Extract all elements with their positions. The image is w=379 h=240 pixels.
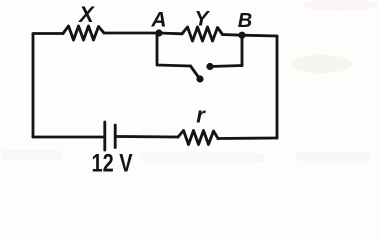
wire node B branch down bbox=[241, 35, 244, 65]
wire X to node A bbox=[104, 32, 159, 35]
resistor X bbox=[63, 26, 104, 40]
switch contact dot bbox=[206, 63, 213, 70]
node A junction dot bbox=[155, 29, 162, 36]
wire Y to node B bbox=[223, 33, 243, 37]
svg-text:Y: Y bbox=[194, 8, 210, 31]
battery short plate bbox=[114, 125, 117, 148]
switch blade end dot bbox=[196, 75, 203, 82]
wire node A to Y bbox=[159, 32, 182, 36]
battery long plate bbox=[103, 122, 106, 150]
svg-text:X: X bbox=[77, 2, 95, 27]
wire battery to resistor r bbox=[116, 135, 178, 138]
wire resistor r to bottom-right corner bbox=[218, 137, 277, 140]
resistor r bbox=[178, 131, 218, 145]
svg-text:A: A bbox=[150, 9, 166, 32]
wire right side bbox=[276, 36, 279, 138]
wire left side bbox=[32, 34, 35, 137]
wire node A branch down to switch bbox=[157, 33, 191, 66]
wire switch contact to node B branch bbox=[210, 66, 242, 67]
wire bottom left to battery bbox=[33, 136, 104, 139]
svg-text:12 V: 12 V bbox=[92, 150, 133, 178]
node B junction dot bbox=[238, 32, 245, 39]
wire top-right corner to node B bbox=[242, 34, 277, 38]
svg-text:r: r bbox=[196, 103, 206, 128]
switch blade (open) bbox=[191, 66, 200, 79]
resistor Y bbox=[182, 27, 223, 41]
wire node A to top-left corner (with X ends) bbox=[33, 32, 63, 35]
svg-text:B: B bbox=[238, 10, 252, 32]
